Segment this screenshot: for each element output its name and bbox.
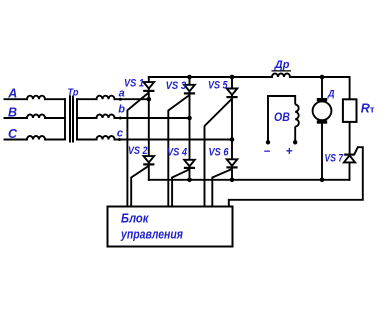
- svg-text:VS 6: VS 6: [209, 147, 230, 159]
- svg-text:C: C: [8, 127, 18, 141]
- svg-text:Блок: Блок: [121, 211, 150, 226]
- winding secondary c: [97, 136, 115, 140]
- wire VS7 anode to bottom bus: [349, 162, 351, 179]
- control unit box: [108, 207, 233, 247]
- wire secondary b stub: [77, 117, 97, 119]
- svg-text:c: c: [117, 128, 123, 140]
- winding primary A: [27, 96, 45, 100]
- wire Rt lower to VS7: [349, 122, 351, 155]
- wire row a: [115, 98, 149, 100]
- svg-text:управления: управления: [120, 227, 183, 242]
- gate wire VS5: [205, 99, 233, 207]
- wire top bus left: [149, 76, 272, 78]
- wire phase C lead: [5, 139, 28, 141]
- svg-text:VS 1: VS 1: [124, 77, 144, 89]
- junction bottom bus at VS4: [187, 178, 192, 183]
- svg-text:Тр: Тр: [68, 86, 80, 98]
- gate wire VS2: [131, 166, 149, 207]
- gate wire VS4: [172, 169, 189, 206]
- winding primary B: [27, 115, 45, 119]
- thyristor VS7: [344, 155, 355, 163]
- field winding OV: [268, 96, 299, 142]
- junction top bus at VS3: [187, 75, 192, 80]
- wire secondary star bus: [76, 99, 78, 139]
- svg-text:b: b: [118, 103, 125, 115]
- wire motor branch upper: [321, 77, 323, 98]
- node tick row b: [119, 117, 122, 120]
- wire primary star bus: [64, 99, 66, 139]
- wire VS5 anode stub: [231, 77, 233, 89]
- transformer T1 core: [70, 97, 73, 142]
- svg-text:VS 7: VS 7: [325, 153, 344, 165]
- winding secondary a: [97, 96, 115, 100]
- thyristor VS2: [143, 156, 154, 164]
- wire top bus right: [290, 77, 350, 99]
- junction row b at VS3 column: [187, 116, 192, 121]
- junction top bus at VS5: [230, 75, 235, 80]
- svg-text:VS 2: VS 2: [128, 145, 148, 157]
- wire column phase a mid: [148, 89, 150, 157]
- wire column phase c low: [231, 166, 233, 180]
- svg-text:ОВ: ОВ: [274, 112, 290, 124]
- motor D brush top: [317, 98, 327, 101]
- wire B to primary bus: [45, 117, 65, 119]
- wire column phase b mid: [189, 91, 191, 160]
- winding primary C: [27, 136, 45, 140]
- wire motor branch lower: [321, 124, 323, 180]
- svg-text:VS 3: VS 3: [166, 80, 187, 92]
- terminal dot minus: [266, 140, 270, 144]
- inductor L1 choke coil: [272, 74, 290, 77]
- svg-text:VS 5: VS 5: [208, 80, 228, 92]
- node tick row c: [118, 138, 121, 141]
- thyristor VS3: [184, 85, 195, 94]
- wire phase B lead: [5, 117, 28, 119]
- resistor Rt: [343, 99, 357, 122]
- wire bottom bus: [149, 179, 350, 181]
- thyristor VS4: [184, 160, 195, 168]
- underline of Dr label: [272, 70, 292, 72]
- wire VS1 anode stub: [148, 77, 150, 82]
- wire secondary a stub: [77, 98, 97, 100]
- wire column phase b low: [189, 166, 191, 180]
- wire column phase a low: [148, 163, 150, 180]
- wire A to primary bus: [45, 98, 65, 100]
- svg-text:+: +: [286, 146, 293, 158]
- svg-text:Rт: Rт: [361, 102, 375, 116]
- svg-text:Д: Д: [327, 88, 335, 98]
- thyristor VS1: [143, 82, 154, 91]
- thyristor VS5: [226, 89, 237, 98]
- wire column phase c mid: [231, 95, 233, 159]
- gate wire VS3: [168, 95, 189, 207]
- svg-text:VS 4: VS 4: [167, 147, 187, 159]
- terminal dot plus: [293, 140, 297, 144]
- junction row c at VS5 column: [230, 137, 235, 142]
- junction bottom bus at VS6: [230, 178, 235, 183]
- junction top bus at motor: [320, 75, 325, 80]
- svg-text:B: B: [8, 105, 17, 119]
- svg-text:Др: Др: [274, 59, 290, 71]
- motor D armature: [313, 101, 332, 120]
- wire row c: [115, 139, 233, 141]
- motor D brush bottom: [317, 120, 327, 123]
- wire phase A lead: [5, 98, 28, 100]
- wire C to primary bus: [45, 139, 65, 141]
- thyristor VS6: [226, 159, 237, 167]
- junction bottom bus at motor: [320, 178, 325, 183]
- wire secondary c stub: [77, 139, 97, 141]
- wire row b: [115, 117, 190, 119]
- wire VS3 anode stub: [189, 77, 191, 85]
- node tick row a: [119, 98, 122, 101]
- svg-text:A: A: [7, 86, 17, 100]
- gate wire VS6: [212, 169, 232, 207]
- gate wire VS7 to control unit: [229, 147, 363, 206]
- svg-text:−: −: [264, 146, 271, 158]
- gate wire VS1: [127, 93, 148, 207]
- winding secondary b: [97, 115, 115, 119]
- junction row a at VS1 column: [147, 97, 152, 102]
